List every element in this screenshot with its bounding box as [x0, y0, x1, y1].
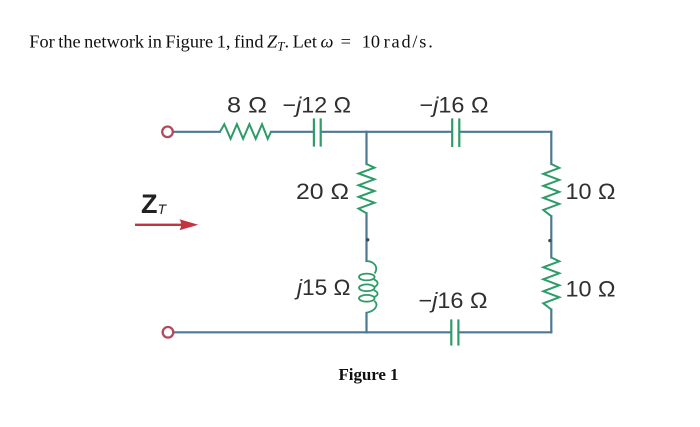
svg-text:T: T [158, 201, 168, 217]
svg-text:10 Ω: 10 Ω [566, 179, 616, 204]
svg-text:10 Ω: 10 Ω [566, 277, 616, 302]
svg-text:8 Ω: 8 Ω [227, 93, 267, 118]
svg-text:−j16 Ω: −j16 Ω [420, 93, 489, 118]
svg-text:Z: Z [141, 189, 158, 219]
svg-text:For the network in Figure 1, f: For the network in Figure 1, find ZT. Le… [29, 32, 434, 54]
svg-text:−j12 Ω: −j12 Ω [283, 93, 352, 118]
svg-text:j15 Ω: j15 Ω [294, 275, 351, 300]
svg-text:−j16 Ω: −j16 Ω [419, 288, 488, 313]
svg-text:Figure 1: Figure 1 [339, 365, 399, 384]
svg-text:20 Ω: 20 Ω [296, 179, 349, 204]
